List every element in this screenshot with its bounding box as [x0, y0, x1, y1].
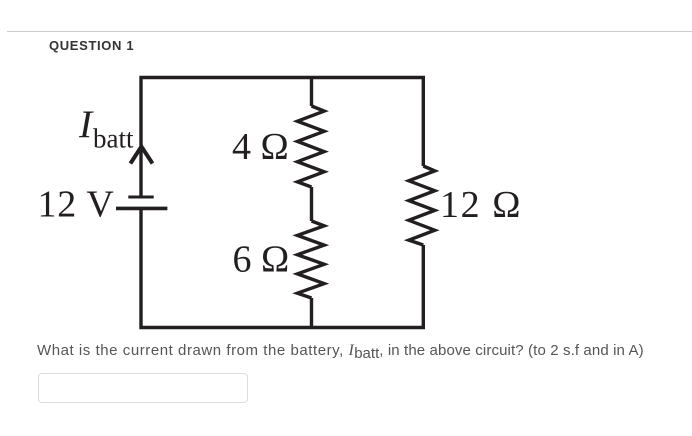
- svg-text:12 V: 12 V: [38, 184, 115, 226]
- svg-text:6 Ω: 6 Ω: [233, 239, 290, 281]
- svg-text:batt: batt: [93, 124, 134, 154]
- svg-text:I: I: [78, 102, 94, 146]
- svg-text:4 Ω: 4 Ω: [232, 126, 289, 168]
- svg-text:12 Ω: 12 Ω: [440, 184, 522, 226]
